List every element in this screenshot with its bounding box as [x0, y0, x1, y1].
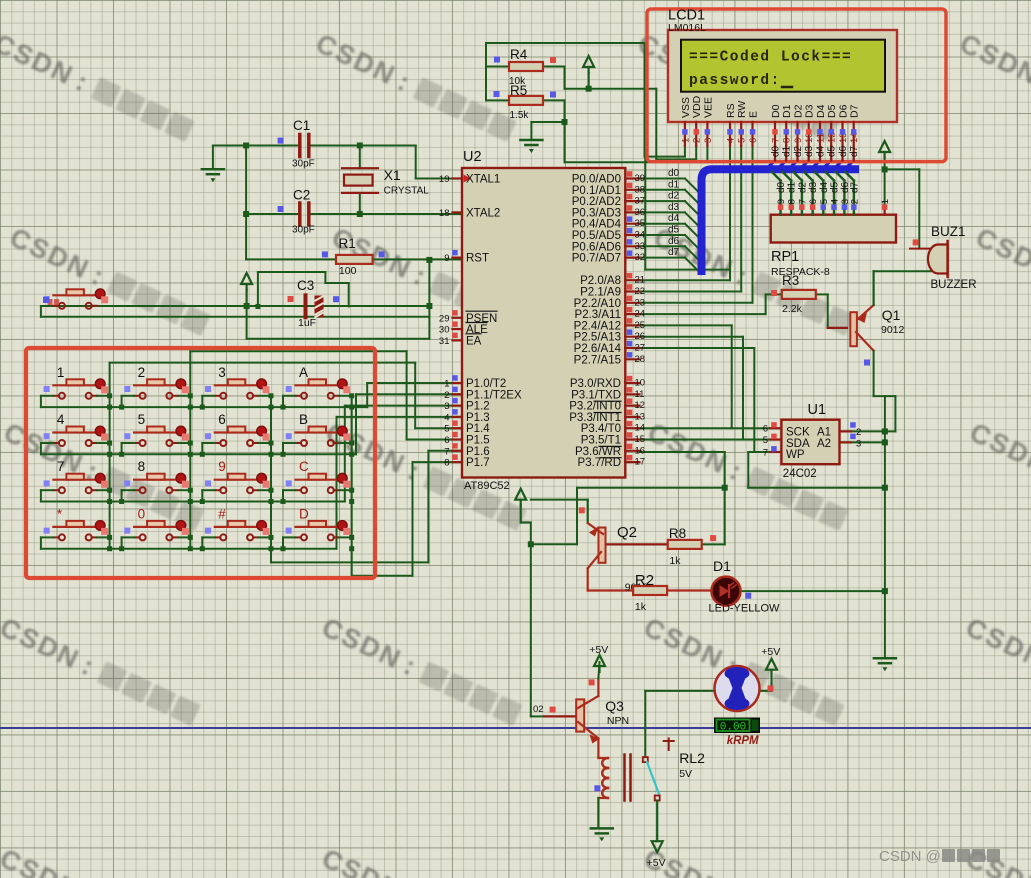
- svg-text:9012: 9012: [881, 324, 905, 336]
- svg-text:X1: X1: [384, 167, 401, 183]
- svg-text:P3.1/TXD: P3.1/TXD: [571, 389, 621, 401]
- svg-text:0: 0: [138, 506, 146, 521]
- svg-text:RW: RW: [736, 101, 748, 118]
- svg-text:RST: RST: [466, 253, 489, 265]
- svg-text:34: 34: [635, 230, 646, 241]
- svg-text:d6: d6: [668, 236, 680, 247]
- svg-text:D1: D1: [713, 558, 731, 574]
- svg-text:27: 27: [635, 343, 646, 354]
- svg-text:P3.3/INT1: P3.3/INT1: [569, 412, 621, 424]
- svg-text:A: A: [299, 365, 308, 380]
- svg-text:8: 8: [444, 458, 449, 469]
- svg-text:P3.0/RXD: P3.0/RXD: [570, 378, 621, 390]
- svg-text:4: 4: [444, 412, 449, 423]
- svg-text:P2.4/A12: P2.4/A12: [574, 320, 621, 332]
- svg-text:#: #: [218, 506, 226, 521]
- svg-text:7: 7: [771, 138, 782, 143]
- svg-text:7: 7: [797, 199, 808, 204]
- svg-text:P3.2/INT0: P3.2/INT0: [569, 401, 621, 413]
- svg-text:7: 7: [444, 446, 449, 457]
- svg-text:19: 19: [439, 174, 450, 185]
- svg-text:30: 30: [439, 325, 450, 336]
- svg-text:C1: C1: [293, 118, 310, 133]
- svg-text:NPN: NPN: [607, 715, 629, 727]
- svg-text:4: 4: [726, 138, 737, 143]
- svg-text:VEE: VEE: [702, 97, 714, 118]
- svg-text:1: 1: [57, 365, 65, 380]
- svg-text:P2.2/A10: P2.2/A10: [574, 298, 621, 310]
- svg-text:d3: d3: [668, 202, 680, 213]
- svg-text:SCK: SCK: [786, 427, 810, 439]
- svg-text:D3: D3: [804, 104, 816, 118]
- svg-text:EA: EA: [466, 335, 482, 347]
- svg-text:6: 6: [763, 424, 768, 435]
- svg-text:21: 21: [635, 275, 646, 286]
- svg-text:32: 32: [635, 252, 646, 263]
- svg-text:d0: d0: [776, 181, 787, 193]
- svg-text:P0.3/AD3: P0.3/AD3: [572, 207, 621, 219]
- svg-text:31: 31: [439, 336, 450, 347]
- svg-text:d5: d5: [668, 225, 680, 236]
- svg-text:8: 8: [138, 459, 146, 474]
- svg-text:d3: d3: [804, 145, 815, 157]
- svg-text:LM016L: LM016L: [668, 22, 706, 34]
- svg-text:d3: d3: [808, 181, 819, 193]
- svg-text:D7: D7: [849, 104, 861, 118]
- svg-text:30pF: 30pF: [292, 159, 315, 170]
- svg-text:6: 6: [808, 199, 819, 204]
- svg-text:P2.6/A14: P2.6/A14: [574, 343, 622, 355]
- svg-text:LED-YELLOW: LED-YELLOW: [709, 603, 781, 615]
- svg-text:36: 36: [635, 207, 646, 218]
- svg-text:11: 11: [816, 133, 827, 143]
- svg-text:P2.5/A13: P2.5/A13: [574, 332, 621, 344]
- svg-text:P3.7/RD: P3.7/RD: [578, 457, 621, 469]
- svg-text:+5V: +5V: [647, 857, 666, 869]
- svg-text:R5: R5: [510, 83, 527, 98]
- svg-text:d5: d5: [827, 145, 838, 157]
- svg-text:B: B: [299, 412, 308, 427]
- svg-text:26: 26: [635, 331, 646, 342]
- svg-text:P0.7/AD7: P0.7/AD7: [572, 253, 621, 265]
- svg-text:5: 5: [763, 435, 768, 446]
- svg-text:d0: d0: [771, 145, 782, 157]
- svg-text:4: 4: [830, 199, 841, 204]
- svg-text:D1: D1: [781, 104, 793, 118]
- svg-text:02: 02: [533, 704, 544, 715]
- svg-text:d0: d0: [668, 168, 680, 179]
- svg-text:16: 16: [635, 445, 646, 456]
- svg-text:9: 9: [218, 459, 226, 474]
- svg-text:30pF: 30pF: [292, 225, 315, 236]
- svg-text:9: 9: [793, 138, 804, 143]
- svg-text:1: 1: [880, 199, 891, 204]
- svg-text:d1: d1: [787, 181, 798, 193]
- svg-text:8: 8: [782, 138, 793, 143]
- svg-text:SDA: SDA: [786, 438, 810, 450]
- svg-text:d6: d6: [838, 145, 849, 157]
- svg-text:2: 2: [444, 390, 449, 401]
- svg-text:D: D: [299, 506, 309, 521]
- svg-text:2: 2: [849, 199, 860, 204]
- svg-text:6: 6: [218, 412, 226, 427]
- svg-text:R8: R8: [669, 526, 686, 541]
- svg-text:WP: WP: [786, 449, 805, 461]
- svg-text:VDD: VDD: [691, 95, 703, 118]
- svg-text:D0: D0: [770, 104, 782, 118]
- svg-text:C: C: [299, 459, 309, 474]
- svg-text:24: 24: [635, 309, 646, 320]
- svg-text:P2.1/A9: P2.1/A9: [580, 287, 621, 299]
- svg-text:7: 7: [763, 448, 768, 459]
- svg-text:d5: d5: [830, 181, 841, 193]
- svg-text:P0.0/AD0: P0.0/AD0: [572, 174, 621, 186]
- svg-text:d2: d2: [668, 191, 680, 202]
- svg-text:5: 5: [737, 138, 748, 143]
- svg-text:100: 100: [339, 265, 357, 277]
- svg-text:3: 3: [218, 365, 226, 380]
- svg-text:39: 39: [635, 173, 646, 184]
- svg-text:+5V: +5V: [589, 644, 608, 656]
- svg-text:RP1: RP1: [771, 249, 799, 265]
- svg-text:d2: d2: [793, 145, 804, 157]
- svg-text:d1: d1: [782, 145, 793, 157]
- svg-text:RL2: RL2: [679, 750, 705, 766]
- svg-text:XTAL1: XTAL1: [466, 174, 500, 186]
- svg-text:2: 2: [692, 138, 703, 143]
- svg-text:6: 6: [444, 435, 449, 446]
- svg-text:35: 35: [635, 218, 646, 229]
- svg-text:P1.0/T2: P1.0/T2: [466, 378, 506, 390]
- svg-text:5: 5: [444, 424, 449, 435]
- svg-text:R2: R2: [635, 572, 654, 589]
- svg-text:1uF: 1uF: [298, 317, 316, 329]
- svg-text:22: 22: [635, 286, 646, 297]
- svg-text:P0.4/AD4: P0.4/AD4: [572, 219, 622, 231]
- svg-text:37: 37: [635, 196, 646, 207]
- svg-text:BUZ1: BUZ1: [931, 224, 966, 239]
- svg-text:C3: C3: [297, 278, 314, 293]
- svg-text:5: 5: [819, 199, 830, 204]
- svg-text:*: *: [57, 506, 63, 521]
- svg-text:U1: U1: [808, 402, 827, 418]
- svg-text:18: 18: [439, 208, 450, 219]
- svg-text:9: 9: [776, 199, 787, 204]
- svg-text:R1: R1: [339, 236, 356, 251]
- svg-text:7: 7: [57, 459, 65, 474]
- svg-text:d4: d4: [816, 145, 827, 157]
- svg-text:A1: A1: [817, 427, 831, 439]
- svg-text:13: 13: [635, 411, 646, 422]
- svg-text:password:: password:: [689, 73, 781, 89]
- svg-text:29: 29: [439, 313, 450, 324]
- svg-text:P1.2: P1.2: [466, 401, 490, 413]
- svg-text:0.00: 0.00: [720, 722, 746, 734]
- svg-text:15: 15: [635, 434, 646, 445]
- svg-text:9: 9: [444, 253, 449, 264]
- svg-text:5: 5: [138, 412, 146, 427]
- svg-text:P1.6: P1.6: [466, 446, 490, 458]
- svg-text:24C02: 24C02: [783, 468, 817, 480]
- svg-text:1: 1: [680, 138, 691, 143]
- svg-text:P2.3/A11: P2.3/A11: [575, 309, 621, 321]
- svg-text:XTAL2: XTAL2: [466, 207, 500, 219]
- svg-text:3: 3: [703, 138, 714, 143]
- svg-text:P1.7: P1.7: [466, 457, 490, 469]
- svg-text:1: 1: [444, 379, 449, 390]
- svg-text:Q1: Q1: [882, 307, 901, 323]
- svg-text:P1.5: P1.5: [466, 435, 490, 447]
- svg-text:Q3: Q3: [605, 698, 624, 714]
- svg-text:RESPACK-8: RESPACK-8: [771, 266, 830, 278]
- svg-text:D5: D5: [826, 104, 838, 118]
- svg-text:28: 28: [635, 354, 646, 365]
- svg-text:P1.4: P1.4: [466, 423, 490, 435]
- svg-text:14: 14: [635, 423, 646, 434]
- svg-text:P1.3: P1.3: [466, 412, 490, 424]
- svg-text:1.5k: 1.5k: [510, 110, 530, 121]
- svg-text:3: 3: [856, 438, 861, 449]
- svg-text:1k: 1k: [669, 555, 681, 567]
- svg-text:U2: U2: [463, 149, 482, 165]
- svg-text:P0.2/AD2: P0.2/AD2: [572, 196, 621, 208]
- svg-text:BUZZER: BUZZER: [931, 279, 977, 291]
- svg-text:P3.6/WR: P3.6/WR: [575, 446, 621, 458]
- svg-text:d4: d4: [668, 213, 680, 224]
- svg-text:P3.4/T0: P3.4/T0: [581, 423, 621, 435]
- svg-text:23: 23: [635, 297, 646, 308]
- svg-text:3: 3: [444, 401, 449, 412]
- svg-text:12: 12: [635, 400, 646, 411]
- svg-text:d7: d7: [849, 145, 860, 157]
- svg-text:25: 25: [635, 320, 646, 331]
- svg-text:A2: A2: [817, 438, 831, 450]
- svg-text:17: 17: [635, 457, 646, 468]
- svg-text:38: 38: [635, 184, 646, 195]
- svg-text:5V: 5V: [679, 768, 692, 780]
- svg-text:CRYSTAL: CRYSTAL: [384, 186, 430, 197]
- svg-text:P0.1/AD1: P0.1/AD1: [572, 185, 621, 197]
- svg-text:10: 10: [635, 378, 646, 389]
- svg-text:P2.0/A8: P2.0/A8: [580, 275, 621, 287]
- svg-text:d2: d2: [797, 181, 808, 193]
- svg-text:D2: D2: [793, 104, 805, 118]
- svg-text:C2: C2: [293, 188, 310, 203]
- svg-text:P2.7/A15: P2.7/A15: [574, 354, 621, 366]
- svg-text:VSS: VSS: [680, 97, 692, 118]
- svg-text:11: 11: [635, 389, 645, 400]
- svg-text:Q2: Q2: [617, 524, 637, 541]
- svg-text:d7: d7: [668, 247, 680, 258]
- svg-text:+5V: +5V: [761, 646, 780, 658]
- svg-text:P0.6/AD6: P0.6/AD6: [572, 241, 621, 253]
- svg-text:R4: R4: [510, 47, 528, 62]
- svg-text:P0.5/AD5: P0.5/AD5: [572, 230, 621, 242]
- svg-text:d7: d7: [849, 181, 860, 193]
- svg-text:d1: d1: [668, 179, 680, 190]
- svg-text:33: 33: [635, 241, 646, 252]
- svg-text:8: 8: [787, 199, 798, 204]
- svg-text:D4: D4: [815, 104, 827, 118]
- svg-text:===Coded Lock===: ===Coded Lock===: [689, 50, 852, 66]
- svg-text:1k: 1k: [635, 601, 647, 613]
- svg-text:6: 6: [748, 138, 759, 143]
- svg-text:RS: RS: [725, 103, 737, 118]
- svg-text:2: 2: [138, 365, 146, 380]
- svg-text:AT89C52: AT89C52: [464, 480, 510, 492]
- svg-text:P3.5/T1: P3.5/T1: [581, 435, 621, 447]
- svg-text:2.2k: 2.2k: [782, 303, 803, 315]
- svg-text:P1.1/T2EX: P1.1/T2EX: [466, 389, 522, 401]
- svg-text:d4: d4: [819, 181, 830, 193]
- svg-text:D6: D6: [838, 104, 850, 118]
- svg-text:2: 2: [856, 427, 861, 438]
- svg-text:E: E: [748, 111, 760, 118]
- svg-text:kRPM: kRPM: [727, 735, 759, 747]
- svg-text:4: 4: [57, 412, 65, 427]
